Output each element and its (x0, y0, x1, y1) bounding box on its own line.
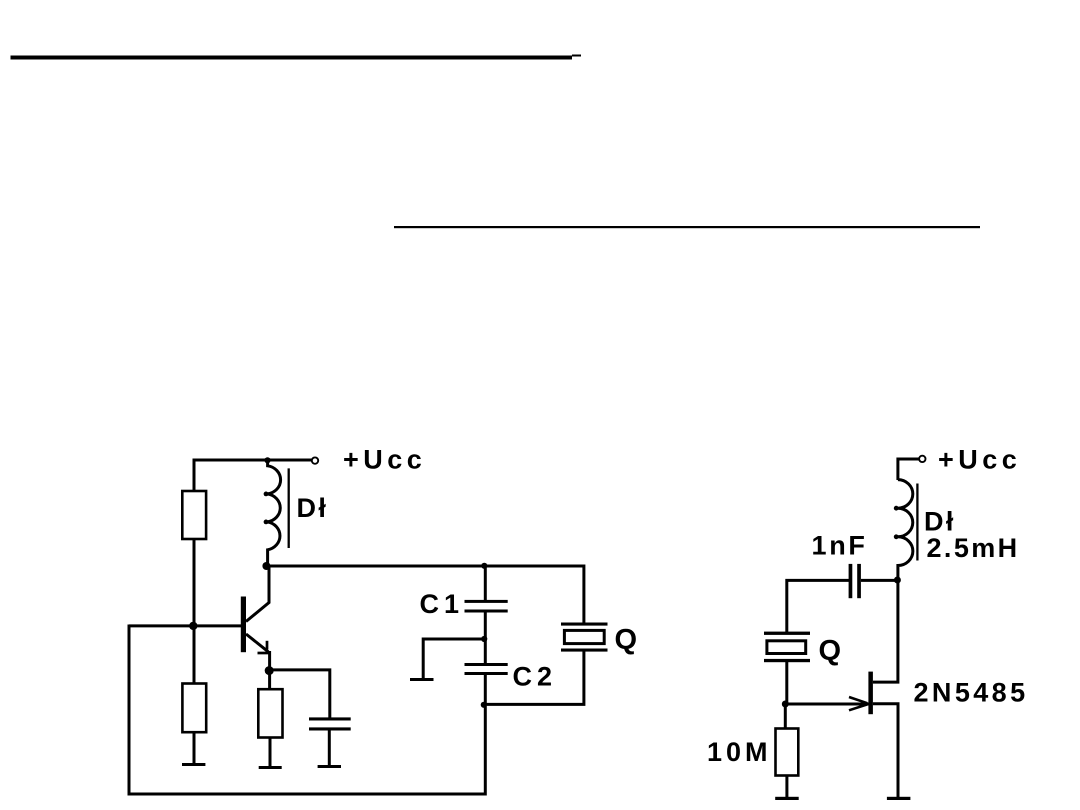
wire 1nF left plate to crystal (right) (787, 580, 849, 632)
capacitor C2 (465, 663, 508, 675)
svg-text:Dł: Dł (924, 506, 956, 536)
crystal Q (right) (764, 632, 810, 663)
capacitor C1 (465, 600, 508, 613)
node junction gate/10M (782, 701, 789, 708)
wire midpoint to C2 (484, 639, 487, 664)
wire C1 to midpoint (484, 613, 487, 641)
node junction C2 bottom (481, 702, 487, 708)
svg-text:2N5485: 2N5485 (914, 678, 1029, 708)
+Ucc terminal (right) (919, 456, 925, 462)
wire bypass capacitor to ground (328, 731, 331, 767)
ground (10M) (775, 797, 799, 800)
capacitor C3 (emitter bypass) (309, 717, 351, 730)
inductor Dl 2.5mH (right) (894, 480, 918, 580)
capacitor 1nF (849, 564, 861, 598)
ground (C1/C2 midpoint) (410, 678, 434, 681)
transistor 2N5485 (N-JFET) (849, 581, 898, 798)
svg-text:Q: Q (615, 624, 640, 656)
svg-text:2.5mH: 2.5mH (927, 533, 1020, 563)
wire gate junction to 10M (784, 704, 787, 729)
wire junction to 1nF right plate (861, 579, 897, 582)
wire 10M to ground (785, 776, 788, 799)
node junction C1 top (481, 563, 487, 569)
svg-text:10M: 10M (707, 737, 772, 767)
svg-text:Q: Q (819, 635, 844, 667)
+Ucc terminal (left) (312, 457, 318, 463)
svg-text:C1: C1 (420, 589, 465, 619)
wire collector bus to crystal branch (266, 566, 584, 623)
crystal Q (left) (561, 623, 608, 652)
wire C2 bottom to crystal bottom (484, 652, 584, 705)
wire R2 to ground (193, 732, 196, 764)
ground (source) (887, 797, 911, 800)
node emitter junction (265, 666, 274, 675)
ground (bypass capacitor) (318, 765, 341, 768)
wire feedback loop (base to bottom rail to C2 bottom) (129, 625, 485, 795)
svg-text:+Ucc: +Ucc (938, 444, 1021, 474)
ground (R3) (259, 766, 282, 769)
resistor R1 (182, 491, 206, 539)
svg-text:Dł: Dł (297, 493, 329, 523)
wire C1 branch (484, 566, 487, 601)
inductor Dl (collector choke, left) (264, 461, 289, 567)
wire emitter to R3 (268, 671, 271, 690)
wire R1 bottom to R2 top through base node (193, 539, 196, 684)
svg-text:+Ucc: +Ucc (343, 444, 426, 474)
node collector junction (262, 562, 270, 570)
wire R3 to ground (269, 738, 272, 768)
wire terminal to inductor (right) (898, 459, 919, 480)
resistor R3 (emitter) (258, 689, 282, 737)
resistor R2 (182, 684, 206, 733)
wire supply rail left circuit (194, 460, 312, 492)
ground (R2) (182, 763, 205, 766)
node junction C1/C2 midpoint (481, 636, 487, 642)
node junction drain/inductor/capacitor (894, 577, 901, 584)
transistor Q1 (NPN BJT) (241, 567, 271, 671)
node junction rail/inductor (264, 457, 270, 463)
wire base (129, 624, 241, 627)
wire C2 to bottom junction (484, 675, 487, 705)
svg-text:1nF: 1nF (812, 531, 868, 561)
wire emitter to bypass capacitor (269, 670, 330, 718)
resistor 10M (776, 729, 799, 776)
wire gate (785, 703, 868, 706)
wire midpoint to ground stub (423, 639, 484, 678)
wire crystal to gate junction (785, 662, 788, 705)
node base junction (189, 622, 197, 630)
svg-text:C2: C2 (513, 662, 558, 692)
